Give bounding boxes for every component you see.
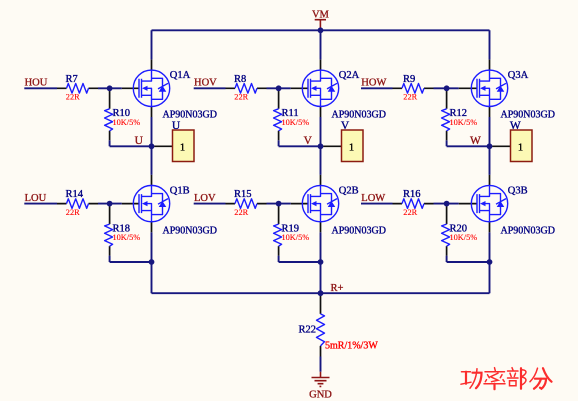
svg-text:10K/5%: 10K/5% [450, 233, 478, 242]
svg-text:U: U [135, 135, 144, 147]
svg-text:22R: 22R [234, 208, 248, 217]
svg-text:1: 1 [180, 143, 185, 154]
svg-text:Q2B: Q2B [339, 186, 359, 197]
svg-text:AP90N03GD: AP90N03GD [163, 110, 217, 121]
svg-text:HOU: HOU [25, 78, 48, 89]
svg-text:22R: 22R [403, 208, 417, 217]
svg-text:Q3B: Q3B [508, 186, 528, 197]
svg-text:22R: 22R [234, 93, 248, 102]
svg-text:V: V [304, 135, 313, 147]
svg-text:AP90N03GD: AP90N03GD [163, 225, 217, 236]
svg-text:W: W [510, 120, 521, 132]
svg-text:LOW: LOW [361, 193, 385, 204]
svg-text:R+: R+ [331, 283, 344, 294]
svg-text:1: 1 [349, 143, 354, 154]
svg-text:U: U [172, 120, 181, 132]
svg-text:1: 1 [518, 143, 523, 154]
svg-text:10K/5%: 10K/5% [282, 233, 310, 242]
svg-text:R15: R15 [234, 189, 252, 200]
svg-text:LOU: LOU [25, 193, 47, 204]
svg-text:AP90N03GD: AP90N03GD [332, 225, 386, 236]
svg-text:10K/5%: 10K/5% [113, 118, 141, 127]
svg-text:10K/5%: 10K/5% [113, 233, 141, 242]
svg-text:R9: R9 [403, 74, 415, 85]
svg-text:R22: R22 [298, 325, 316, 336]
svg-text:R7: R7 [66, 74, 78, 85]
svg-text:Q1B: Q1B [170, 186, 190, 197]
svg-text:Q2A: Q2A [339, 70, 360, 81]
svg-text:AP90N03GD: AP90N03GD [501, 110, 555, 121]
svg-text:GND: GND [309, 389, 332, 400]
svg-text:5mR/1%/3W: 5mR/1%/3W [325, 341, 378, 352]
svg-text:HOW: HOW [361, 78, 386, 89]
svg-text:W: W [470, 135, 481, 147]
svg-text:22R: 22R [403, 93, 417, 102]
svg-text:HOV: HOV [194, 78, 217, 89]
svg-text:Q1A: Q1A [170, 70, 191, 81]
svg-text:R8: R8 [234, 74, 246, 85]
svg-text:LOV: LOV [194, 193, 216, 204]
svg-text:22R: 22R [66, 208, 80, 217]
svg-text:V: V [341, 120, 350, 132]
svg-text:AP90N03GD: AP90N03GD [332, 110, 386, 121]
svg-text:R14: R14 [66, 189, 84, 200]
svg-text:10K/5%: 10K/5% [282, 118, 310, 127]
svg-text:Q3A: Q3A [508, 70, 529, 81]
svg-text:22R: 22R [66, 93, 80, 102]
svg-text:R16: R16 [403, 189, 421, 200]
svg-text:AP90N03GD: AP90N03GD [501, 225, 555, 236]
svg-text:10K/5%: 10K/5% [450, 118, 478, 127]
svg-text:VM: VM [312, 10, 330, 21]
